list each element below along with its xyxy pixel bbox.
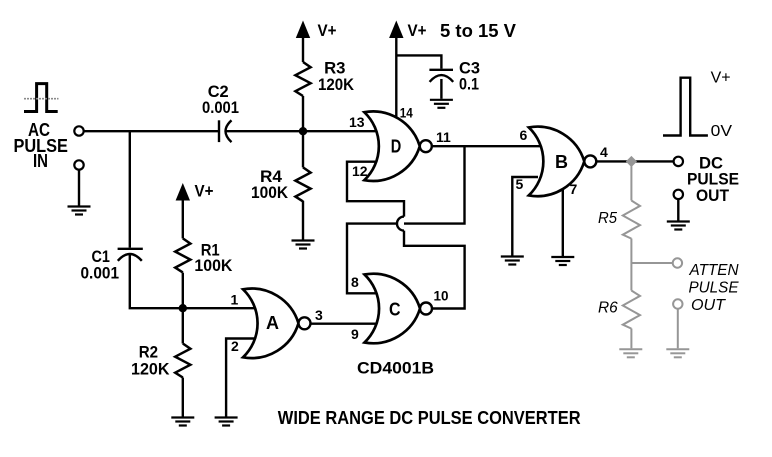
wire C out up to D pin12 (part1: D12 to hop)	[347, 162, 404, 217]
wire hop over (crossover)	[397, 217, 404, 231]
wire atten ref terminal to ground	[677, 309, 679, 349]
NOR gate B	[529, 127, 597, 197]
ground (B pin7)	[551, 257, 574, 265]
resistor R5 (gray)	[623, 201, 640, 239]
svg-text:0.001: 0.001	[202, 98, 239, 117]
ground (C3)	[430, 100, 453, 108]
wire R5 to R6	[630, 239, 632, 291]
svg-text:7: 7	[570, 181, 578, 197]
resistor R1	[175, 238, 190, 272]
AC zero-cross line (gray)	[24, 98, 59, 100]
wire junction down to C1	[129, 131, 131, 247]
wire diamond to R5	[630, 166, 632, 200]
DC ref terminal	[674, 190, 683, 199]
wire input terminal to C2	[84, 130, 218, 132]
wire C3 to ground	[440, 79, 442, 99]
gray attenuator net	[631, 166, 677, 348]
atten output terminal (gray)	[673, 258, 682, 267]
svg-text:9: 9	[351, 326, 359, 342]
svg-text:B: B	[555, 152, 568, 172]
svg-text:100K: 100K	[251, 183, 289, 202]
ground (R4)	[292, 241, 315, 249]
wire R1 to node	[182, 273, 184, 309]
svg-text:0.1: 0.1	[459, 75, 479, 94]
junction diamond	[626, 156, 637, 167]
svg-text:6: 6	[520, 127, 528, 143]
svg-text:C: C	[389, 299, 401, 319]
ground (B pin5)	[501, 257, 524, 265]
AC reference terminal circle	[74, 160, 83, 169]
svg-text:R6: R6	[598, 299, 618, 316]
svg-text:14: 14	[400, 104, 413, 120]
wire V+ branch to C3	[396, 55, 441, 68]
svg-text:V+: V+	[195, 182, 214, 201]
svg-text:2: 2	[231, 338, 239, 354]
svg-text:V+: V+	[408, 21, 427, 40]
wire gate A pin2 to ground	[226, 339, 254, 417]
wire R6 to ground	[630, 329, 632, 349]
ground (DC out)	[667, 222, 690, 230]
wire D out to B pin6	[430, 145, 542, 147]
wire branch to atten terminal	[631, 262, 672, 264]
wire net D11 down to C pin8	[347, 146, 465, 293]
resistor R3	[295, 62, 310, 96]
svg-text:4: 4	[600, 144, 608, 160]
svg-text:5: 5	[516, 176, 524, 192]
NOR gate A	[243, 289, 311, 359]
capacitor C1	[118, 249, 143, 261]
V+ arrow (R1)	[176, 183, 190, 201]
svg-text:0V: 0V	[711, 123, 733, 140]
svg-text:0.001: 0.001	[81, 264, 120, 283]
NOR gate D	[364, 111, 432, 181]
wire hop to C out (part2)	[404, 231, 465, 309]
wire C1 bottom to node A1	[130, 254, 256, 308]
svg-text:13: 13	[349, 114, 365, 130]
wire node to R2	[182, 308, 184, 343]
NOR gate C	[365, 274, 433, 344]
wire gate B pin7 to ground	[562, 185, 564, 256]
capacitor C3	[429, 70, 453, 82]
V+ arrow (R3)	[296, 21, 310, 39]
wire R4 to ground	[302, 201, 304, 240]
svg-text:R5: R5	[598, 210, 617, 227]
DC output terminal	[674, 157, 683, 166]
capacitor C2	[219, 120, 232, 142]
wire V+ arrow to R3	[302, 38, 304, 62]
wire gate B pin5 to ground	[512, 177, 538, 256]
svg-text:V+: V+	[318, 21, 337, 40]
V+ arrow (pin 14)	[389, 21, 403, 39]
ground (AC in)	[68, 207, 91, 215]
resistor R6 (gray)	[623, 291, 640, 329]
ground (R2)	[171, 418, 194, 426]
svg-text:100K: 100K	[194, 256, 233, 275]
svg-text:OUT: OUT	[691, 297, 726, 314]
wire V+ arrow to R1	[182, 201, 184, 239]
node input junction	[299, 127, 307, 135]
wire C2 to node to gate D pin 13	[226, 130, 378, 132]
wire B out to DC terminal	[594, 160, 674, 162]
svg-text:V+: V+	[711, 69, 731, 86]
wire node to R4	[302, 131, 304, 167]
ground (gate A pin2)	[215, 418, 238, 426]
wire R2 to ground	[182, 378, 184, 417]
wire pin14 V+ to gate D	[395, 38, 397, 124]
wire gate A out to gate C pin9	[310, 323, 378, 325]
svg-text:120K: 120K	[318, 75, 355, 94]
svg-text:10: 10	[434, 288, 449, 304]
svg-text:120K: 120K	[131, 360, 170, 379]
svg-text:D: D	[391, 137, 402, 157]
svg-text:CD4001B: CD4001B	[357, 359, 434, 378]
svg-text:PULSE: PULSE	[689, 279, 739, 296]
wire R3 to node	[302, 96, 304, 131]
atten ref terminal (gray)	[673, 299, 682, 308]
svg-text:11: 11	[436, 129, 451, 145]
svg-text:ATTEN: ATTEN	[689, 262, 739, 279]
svg-text:1: 1	[231, 292, 239, 308]
svg-text:3: 3	[315, 307, 323, 323]
wire AC terminal2 to ground	[78, 170, 80, 206]
ground (R6, gray)	[619, 349, 642, 357]
svg-text:5 to 15 V: 5 to 15 V	[440, 21, 516, 41]
node C1/R1/R2/A1 junction	[179, 304, 187, 312]
input terminal circle	[74, 126, 83, 135]
AC input pulse waveform icon	[24, 84, 58, 112]
resistor R4	[295, 167, 310, 201]
resistor R2	[175, 344, 190, 378]
ground (atten ref, gray)	[666, 349, 689, 357]
svg-text:IN: IN	[33, 151, 48, 171]
svg-text:8: 8	[351, 274, 359, 290]
wire DC ref terminal to ground	[677, 199, 679, 220]
output pulse waveform icon	[663, 78, 708, 136]
svg-text:OUT: OUT	[696, 186, 730, 205]
svg-text:WIDE RANGE DC PULSE CONVER: WIDE RANGE DC PULSE CONVERTER	[278, 408, 581, 428]
svg-text:12: 12	[352, 163, 368, 179]
svg-text:A: A	[266, 313, 279, 333]
